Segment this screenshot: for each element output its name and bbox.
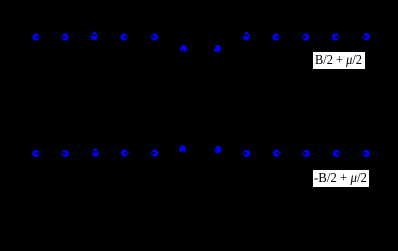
atom dot B2: blue atom with spin arrow <box>60 150 69 157</box>
atom dot T6: blue atom with spin arrow <box>179 44 188 54</box>
energy label: upper band <box>313 52 365 69</box>
atom dot T4: blue atom with spin arrow <box>120 33 128 40</box>
atom dot B1: blue atom with spin arrow <box>32 150 41 157</box>
atom dot T12: blue atom with spin arrow <box>361 33 370 40</box>
atom dot T2: blue atom with spin arrow <box>60 33 69 40</box>
atom dot B6: blue atom with spin arrow <box>179 146 186 154</box>
atom dot T10: blue atom with spin arrow <box>301 33 310 40</box>
atom dot B10: blue atom with spin arrow <box>301 150 310 157</box>
atom dot B9: blue atom with spin arrow <box>273 150 282 157</box>
atom dot B7: blue atom with spin arrow <box>213 144 223 154</box>
atom dot B5: blue atom with spin arrow <box>150 149 159 156</box>
atom dot T3: blue atom with spin arrow <box>90 32 98 41</box>
atom dot B4: blue atom with spin arrow <box>121 149 130 156</box>
energy label: lower band <box>313 170 369 187</box>
atom dot T7: blue atom with spin arrow <box>212 44 222 53</box>
atom dot B12: blue atom with spin arrow <box>361 150 370 157</box>
atom dot B3: blue atom with spin arrow <box>91 148 99 157</box>
atom dot T11: blue atom with spin arrow <box>332 33 341 40</box>
atom dot T9: blue atom with spin arrow <box>272 33 281 40</box>
atom dot B8: blue atom with spin arrow <box>242 150 251 157</box>
atom dot T8: blue atom with spin arrow <box>242 32 250 41</box>
atom dot B11: blue atom with spin arrow <box>333 150 342 157</box>
atom dot T5: blue atom with spin arrow <box>149 32 159 42</box>
atom dot T1: blue atom with spin arrow <box>32 33 41 40</box>
